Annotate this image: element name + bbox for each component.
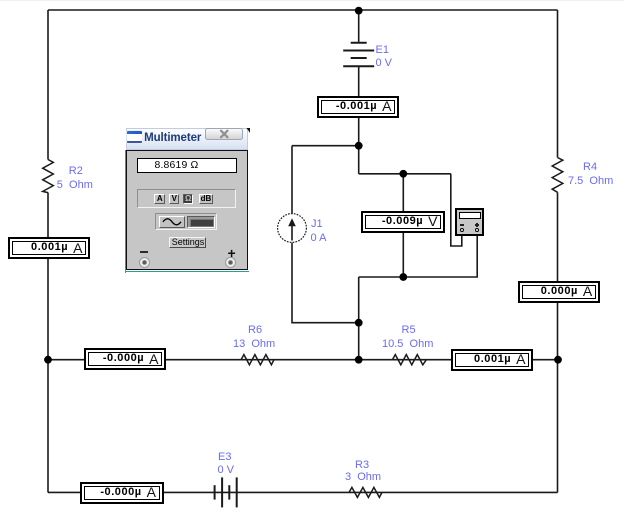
wire top bus [48,9,558,11]
label R4 [583,162,597,173]
wire left vertical upper [47,10,49,160]
corner wedge [246,128,251,134]
ammeter box bus-right 0.001u A [451,349,533,371]
wire icon right lead [403,230,477,277]
label E1 [376,45,389,56]
node bus right junction [554,356,562,364]
button Ohm pressed [183,194,194,205]
node bus left junction [44,356,52,364]
teal shadow left/bottom [125,150,126,273]
label R6 [248,325,262,336]
wire left vertical lower [47,193,49,493]
wire right vertical upper [557,10,559,158]
button sine [159,216,185,228]
battery E1 [343,43,374,67]
title icon [127,131,142,143]
node voltmeter top junction [399,170,407,178]
resistor R4 [552,158,563,193]
resistor R5 [392,355,426,365]
wire icon left lead [451,174,462,246]
title text [144,132,201,144]
wire bottom bus [48,491,558,493]
wire middle branch below E1 [358,66,360,174]
node bus middle junction [355,356,363,364]
voltmeter box -0.009u V [361,211,445,233]
wire voltmeter bottom horizontal [359,276,404,278]
wire J1 branch down to source [291,146,293,214]
wire J1 branch horizontal [292,145,359,147]
settings button [169,237,206,248]
label R5 [402,325,416,336]
multimeter instrument icon XMM [455,208,484,236]
ammeter box right 0.000u A [518,281,600,303]
label R2 [69,166,83,177]
wire middle bus [48,359,558,361]
close button [205,128,243,140]
ammeter box bottom -0.000u A [80,482,164,504]
wave panel [155,213,217,230]
wire lower middle vertical [358,277,360,360]
wire J1 source to bottom corner [292,243,359,323]
label J1 [311,219,323,230]
Multimeter window [125,128,249,273]
label E3 [218,452,231,463]
node voltmeter bottom junction [399,273,407,281]
terminal plus [225,257,236,268]
wire right vertical lower [557,192,559,492]
minus label [140,251,148,254]
label R3 [355,460,369,471]
current source J1 [278,214,307,243]
button V [169,194,180,205]
resistor R2 [43,160,54,193]
wire middle branch E1 top [358,10,360,43]
wire voltmeter branch vertical [402,174,404,277]
button DC pressed [187,216,215,228]
node J1 bottom junction [355,319,363,327]
battery E3 [215,477,237,507]
button A [154,194,165,205]
node middle upper junction [355,142,363,150]
ammeter box left 0.001u A [8,237,91,259]
resistor R3 [349,487,382,497]
title bar [126,128,248,150]
top window edge line [0,0,624,1]
ammeter box top -0.001u A [317,96,400,119]
body [126,150,248,270]
ammeter box bus-left -0.000u A [84,348,167,370]
resistor R6 [241,355,274,365]
display [137,158,237,173]
node top junction [355,7,363,15]
terminal minus [139,257,150,268]
wire horizontal to icon branch [359,173,451,175]
mode panel [137,189,236,208]
button dB [199,194,213,205]
plus label [227,247,235,259]
